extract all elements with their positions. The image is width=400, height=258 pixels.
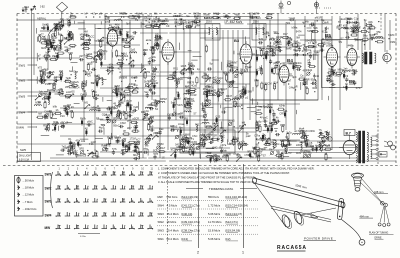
svg-text:SR: SR: [274, 46, 278, 50]
capacitor: [184, 140, 187, 142]
switch contact MW: [57, 225, 59, 229]
coil: [102, 78, 103, 85]
wire: [188, 50, 192, 52]
wire: [294, 20, 296, 130]
junction: [134, 150, 135, 151]
wire: [111, 52, 113, 58]
svg-text:C1p: C1p: [354, 18, 359, 21]
wire: [41, 134, 50, 136]
svg-text:kp7: kp7: [185, 84, 190, 88]
svg-text:CS5: CS5: [215, 116, 220, 119]
resistor: [156, 44, 158, 49]
coil: [202, 122, 209, 123]
dashed partition power section: [377, 108, 379, 165]
switch contact: [181, 68, 185, 72]
wire: [249, 14, 251, 121]
trimmer capacitor: [181, 141, 184, 144]
wire: [220, 105, 222, 108]
wire: [50, 157, 147, 159]
wire: [100, 87, 132, 89]
capacitor: [94, 97, 96, 100]
capacitor: [281, 143, 283, 146]
resistor: [126, 146, 128, 151]
resistor: [305, 141, 307, 146]
svg-text:pab: pab: [127, 119, 132, 123]
wire: [233, 103, 300, 105]
capacitor: [298, 48, 301, 50]
svg-text:7R55: 7R55: [325, 38, 332, 42]
junction: [181, 19, 182, 20]
electrolytic capacitor: [68, 33, 70, 36]
svg-text:kCaa: kCaa: [178, 122, 185, 126]
capacitor: [44, 115, 46, 118]
waveband legend box: [15, 176, 44, 217]
capacitor: [194, 21, 196, 24]
wire: [251, 111, 256, 113]
wire: [247, 106, 256, 108]
resistor: [98, 52, 100, 57]
svg-text:Sp1C: Sp1C: [217, 77, 223, 80]
resistor: [306, 88, 308, 93]
mains feed wire: [288, 140, 356, 142]
coil: [184, 93, 191, 94]
trimmer capacitor: [69, 37, 72, 40]
trimmer capacitor: [99, 56, 102, 59]
junction: [295, 89, 296, 90]
svg-text:5Mp: 5Mp: [363, 35, 368, 38]
cord to bottom pulley: [341, 219, 361, 240]
wire: [106, 116, 110, 118]
trimmer capacitor: [203, 91, 206, 94]
wire: [49, 57, 80, 59]
svg-text:SW3: SW3: [158, 212, 165, 216]
resistor: [281, 141, 283, 146]
electrolytic capacitor: [51, 45, 53, 48]
wire: [121, 20, 123, 95]
coil: [215, 159, 222, 160]
resistor: [128, 86, 133, 88]
svg-text:SC: SC: [216, 13, 220, 16]
switch contact SW1: [112, 171, 114, 175]
junction: [288, 45, 289, 46]
wire: [119, 135, 180, 137]
coil: [221, 136, 222, 143]
resistor: [132, 91, 137, 93]
wire: [175, 113, 181, 115]
electrolytic capacitor: [82, 97, 84, 100]
wire: [58, 32, 60, 36]
resistor: [213, 16, 218, 18]
resistor: [66, 95, 71, 97]
wire: [255, 105, 262, 107]
svg-text:C44M: C44M: [80, 94, 87, 97]
tuning spindle disc: [352, 173, 364, 178]
capacitor: [55, 26, 58, 28]
resistor: [125, 90, 130, 92]
svg-text:pSS: pSS: [70, 91, 75, 94]
wire: [93, 95, 160, 97]
wire: [346, 20, 348, 48]
svg-text:Ma: Ma: [179, 127, 183, 130]
coil: [145, 107, 152, 108]
capacitor: [150, 128, 152, 131]
junction: [388, 38, 389, 39]
svg-text:kMp: kMp: [153, 152, 158, 155]
resistor: [325, 155, 327, 160]
wire: [212, 59, 219, 61]
resistor: [256, 125, 258, 130]
svg-text:pp9: pp9: [44, 116, 49, 120]
trimmer capacitor: [115, 105, 118, 108]
resistor: [110, 30, 115, 32]
wire: [111, 72, 113, 75]
svg-text:MA2: MA2: [24, 6, 30, 9]
coil: [280, 70, 281, 77]
wire: [313, 73, 315, 79]
wire: [242, 142, 244, 150]
capacitor: [346, 36, 348, 39]
trimmer capacitor: [229, 84, 232, 87]
capacitor: [347, 21, 349, 24]
trimmer capacitor: [38, 93, 41, 96]
resistor: [256, 81, 258, 86]
electrolytic capacitor: [54, 127, 56, 130]
wire: [262, 139, 300, 141]
svg-text:4Ca: 4Ca: [76, 139, 81, 142]
svg-text:PLAN OF TUNING: PLAN OF TUNING: [369, 232, 388, 235]
junction: [55, 125, 56, 126]
trimmer capacitor: [41, 80, 44, 83]
junction: [41, 78, 42, 79]
svg-text:(C40,C4): (C40,C4): [181, 212, 192, 216]
trimmer capacitor: [156, 101, 159, 104]
svg-text:5M: 5M: [219, 146, 222, 149]
switch contact SW2: [57, 185, 59, 189]
junction: [177, 130, 178, 131]
svg-text:4S: 4S: [85, 128, 88, 131]
trimmer capacitor: [66, 106, 69, 109]
wire: [48, 82, 52, 84]
resistor: [38, 116, 43, 118]
capacitor: [87, 123, 89, 126]
svg-text:(S14,C29,C9): (S14,C29,C9): [181, 195, 198, 199]
switch contact: [187, 65, 191, 69]
svg-text:599S: 599S: [132, 14, 138, 18]
capacitor: [370, 37, 372, 40]
switch contact MW: [94, 225, 96, 229]
svg-text:pRM: pRM: [273, 62, 278, 65]
wire: [274, 32, 279, 34]
svg-text:p97: p97: [79, 55, 84, 58]
switch contact SW3: [140, 198, 142, 202]
svg-text:1pb: 1pb: [39, 91, 44, 94]
svg-text:SW2: SW2: [158, 220, 165, 224]
svg-text:DIAL LIGHT: DIAL LIGHT: [19, 155, 32, 158]
resistor: [151, 24, 156, 26]
svg-text:pCbR: pCbR: [113, 117, 120, 120]
junction: [241, 108, 242, 109]
svg-text:RS: RS: [185, 118, 189, 121]
trimmer capacitor: [172, 75, 175, 78]
switch matrix brace: [51, 172, 53, 208]
capacitor: [133, 109, 135, 112]
wire: [151, 20, 153, 100]
wire: [233, 86, 239, 88]
capacitor: [326, 78, 329, 80]
svg-text:55b: 55b: [377, 30, 382, 34]
capacitor: [354, 70, 356, 73]
wire: [48, 35, 50, 42]
cord diagonal: [255, 184, 286, 227]
svg-text:p9aS: p9aS: [306, 69, 312, 72]
capacitor: [45, 57, 48, 59]
resistor: [44, 55, 49, 57]
resistor: [71, 148, 73, 153]
trimmer capacitor: [113, 120, 116, 123]
resistor: [361, 30, 366, 32]
capacitor: [312, 148, 314, 151]
svg-text:pR4: pR4: [195, 23, 200, 27]
svg-text:bC: bC: [345, 83, 348, 86]
wire: [134, 145, 136, 150]
junction: [181, 24, 182, 25]
svg-text:bC7: bC7: [107, 142, 112, 146]
resistor: [159, 151, 164, 153]
wire: [175, 20, 177, 120]
junction: [74, 148, 75, 149]
wire: [227, 139, 229, 144]
svg-text:aSpR: aSpR: [152, 82, 158, 85]
switch contact: [69, 93, 73, 97]
wire: [263, 24, 265, 120]
wire: [300, 82, 302, 90]
capacitor: [86, 34, 88, 37]
svg-text:B4: B4: [287, 58, 293, 63]
fan pulley A: [378, 223, 381, 226]
electrolytic capacitor: [127, 34, 129, 37]
capacitor: [295, 53, 297, 56]
switch contact: [214, 125, 218, 129]
wire: [17, 123, 53, 125]
resistor: [137, 148, 139, 153]
switch contact SW3: [94, 198, 96, 202]
junction: [56, 60, 57, 61]
trimmer capacitor: [303, 81, 306, 84]
resistor: [182, 146, 184, 151]
capacitor: [208, 67, 210, 70]
capacitor: [88, 38, 91, 40]
dashed partition output section: [380, 14, 382, 30]
resistor: [258, 156, 260, 161]
junction: [39, 70, 40, 71]
junction: [123, 114, 124, 115]
capacitor: [149, 88, 152, 90]
svg-text:pR: pR: [295, 45, 298, 49]
resistor: [51, 58, 56, 60]
svg-text:1C: 1C: [211, 156, 214, 160]
switch contact SW2: [112, 185, 114, 189]
table pointer line 1: [243, 164, 245, 248]
junction: [266, 36, 267, 37]
capacitor: [69, 141, 72, 143]
svg-text:bC1: bC1: [148, 15, 153, 18]
bus wire 2: [55, 23, 220, 25]
resistor: [212, 138, 217, 140]
svg-text:a5S9: a5S9: [52, 122, 59, 126]
wire: [339, 16, 341, 110]
switch contact SW4: [57, 212, 59, 216]
wire: [160, 71, 204, 73]
resistor: [226, 156, 228, 161]
svg-text:SW1: SW1: [158, 237, 165, 241]
svg-text:1ka4: 1ka4: [188, 20, 194, 24]
capacitor: [331, 83, 333, 86]
wire: [74, 103, 80, 105]
svg-text:9CRC: 9CRC: [124, 112, 131, 115]
switch contact SW3: [66, 198, 68, 202]
svg-text:9a45: 9a45: [286, 46, 292, 50]
resistor: [132, 121, 137, 123]
svg-text:C1p: C1p: [52, 83, 57, 86]
svg-text:R1k: R1k: [89, 142, 94, 146]
svg-text:B5: B5: [325, 33, 331, 38]
wire: [206, 106, 214, 108]
capacitor: [107, 69, 109, 72]
svg-text:4RSk: 4RSk: [63, 105, 70, 108]
wire: [100, 119, 144, 121]
capacitor: [173, 71, 175, 74]
svg-text:4Rk: 4Rk: [264, 52, 269, 55]
capacitor: [120, 64, 123, 66]
junction: [313, 46, 314, 47]
resistor: [377, 41, 382, 43]
svg-text:1k7p: 1k7p: [286, 132, 292, 135]
wire: [206, 148, 214, 150]
svg-text:M5: M5: [99, 49, 103, 52]
resistor: [190, 88, 195, 90]
switch contact SW1: [131, 171, 133, 175]
svg-text:RCaR: RCaR: [61, 122, 68, 125]
capacitor: [116, 140, 119, 142]
switch contact: [153, 135, 157, 139]
wire: [167, 62, 169, 150]
svg-text:R4a1: R4a1: [309, 45, 316, 49]
wire: [132, 17, 138, 19]
svg-text:47kk: 47kk: [94, 94, 100, 97]
svg-text:pM1R: pM1R: [315, 16, 322, 19]
svg-text:77S: 77S: [101, 123, 106, 127]
junction: [263, 58, 264, 59]
svg-text:44Rk: 44Rk: [348, 43, 355, 47]
capacitor: [322, 140, 324, 143]
wire: [171, 128, 180, 130]
svg-text:9474: 9474: [296, 30, 302, 34]
legend row: [17, 177, 20, 182]
wire: [169, 160, 396, 162]
svg-text:B3: B3: [234, 38, 240, 43]
wire: [303, 134, 309, 136]
capacitor: [128, 114, 130, 117]
wire: [330, 72, 336, 74]
svg-text:Mp4: Mp4: [325, 144, 331, 148]
capacitor: [43, 71, 45, 74]
wire: [102, 79, 107, 81]
svg-text:17p5: 17p5: [233, 152, 239, 156]
resistor: [259, 126, 261, 131]
switch contact SW4: [149, 212, 151, 216]
resistor: [234, 17, 239, 19]
svg-text:RR: RR: [223, 153, 227, 157]
switch contact SW3: [112, 198, 114, 202]
svg-text:RR5R: RR5R: [119, 12, 126, 15]
capacitor: [150, 120, 152, 123]
resistor: [117, 33, 122, 35]
svg-text:4k9: 4k9: [149, 125, 154, 128]
wire: [200, 103, 232, 105]
trimmer capacitor: [60, 25, 63, 28]
electrolytic capacitor: [60, 77, 62, 80]
resistor: [100, 55, 102, 60]
wire: [200, 37, 250, 39]
wire: [288, 75, 293, 77]
junction: [256, 17, 257, 18]
capacitor: [272, 118, 275, 120]
junction: [157, 136, 158, 137]
junction: [93, 16, 94, 17]
resistor: [242, 143, 247, 145]
resistor: [261, 69, 263, 74]
capacitor: [73, 151, 75, 154]
svg-text:kbkb: kbkb: [264, 32, 270, 35]
switch contact: [147, 134, 151, 138]
junction: [366, 23, 367, 24]
resistor: [265, 143, 270, 145]
trimmer capacitor: [304, 46, 307, 49]
switch contact SW3: [149, 198, 151, 202]
junction: [277, 65, 278, 66]
svg-text:9M: 9M: [267, 45, 270, 48]
svg-text:R17: R17: [283, 33, 288, 36]
svg-text:M1p: M1p: [133, 154, 138, 157]
svg-text:kR: kR: [295, 85, 298, 88]
svg-text:RACA65A: RACA65A: [277, 245, 307, 251]
svg-text:S7: S7: [340, 37, 344, 41]
svg-text:S7: S7: [263, 154, 267, 158]
wire: [36, 53, 38, 61]
wire: [78, 28, 86, 30]
svg-text:bkk: bkk: [305, 20, 310, 24]
svg-text:k9bS: k9bS: [257, 150, 263, 153]
resistor: [111, 42, 116, 44]
wire: [97, 118, 104, 120]
trimmer capacitor: [102, 147, 105, 150]
junction: [105, 21, 106, 22]
wire: [274, 128, 278, 130]
svg-text:Rpp7: Rpp7: [221, 88, 228, 91]
valve B3: [237, 41, 255, 67]
wire: [88, 152, 96, 154]
wire: [37, 37, 39, 42]
svg-text:CCa: CCa: [306, 49, 312, 52]
wire: [33, 14, 35, 76]
resistor: [225, 99, 230, 101]
capacitor: [308, 62, 311, 64]
capacitor: [154, 67, 157, 69]
svg-text:54bC: 54bC: [42, 97, 48, 101]
svg-text:MW: MW: [158, 195, 163, 199]
wire: [67, 122, 72, 124]
junction: [120, 72, 121, 73]
